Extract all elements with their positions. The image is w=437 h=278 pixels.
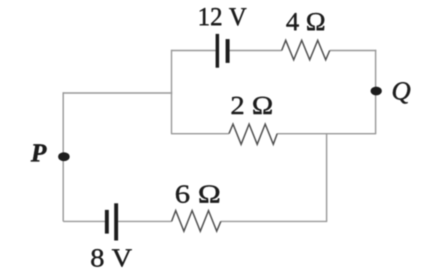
battery V1 12V long plate — [216, 34, 220, 68]
resistor 4 ohm zigzag — [282, 40, 330, 60]
label 6 ohm — [176, 185, 219, 203]
wire inner-left vertical — [171, 50, 173, 134]
wire junction vertical — [326, 134, 328, 222]
wire right vertical — [375, 50, 377, 134]
wire top branch middle segment — [230, 50, 282, 52]
label 8 V — [91, 249, 132, 267]
label 4 ohm — [286, 13, 324, 30]
resistor 2 ohm zigzag — [229, 124, 277, 144]
wire top branch right segment — [330, 50, 377, 52]
battery V1 12V short plate — [226, 39, 230, 63]
label 12 V — [200, 8, 247, 26]
wire middle branch left segment — [171, 133, 229, 135]
wire middle branch right segment — [277, 133, 376, 135]
node Q label — [393, 82, 410, 103]
battery V2 8V long plate — [114, 203, 118, 240]
node P label — [31, 144, 47, 161]
label 2 ohm — [232, 97, 272, 114]
node P dot — [58, 152, 70, 161]
node Q dot — [371, 87, 382, 96]
battery V2 8V short plate — [105, 210, 109, 234]
wire bottom branch left segment — [63, 220, 105, 222]
wire bottom branch middle segment — [118, 220, 172, 222]
resistor 6 ohm zigzag — [172, 211, 221, 232]
wire top branch left segment — [171, 50, 216, 52]
wire left vertical — [62, 92, 64, 221]
wire bottom branch right segment — [221, 220, 328, 222]
wire left connector horizontal — [63, 92, 172, 94]
